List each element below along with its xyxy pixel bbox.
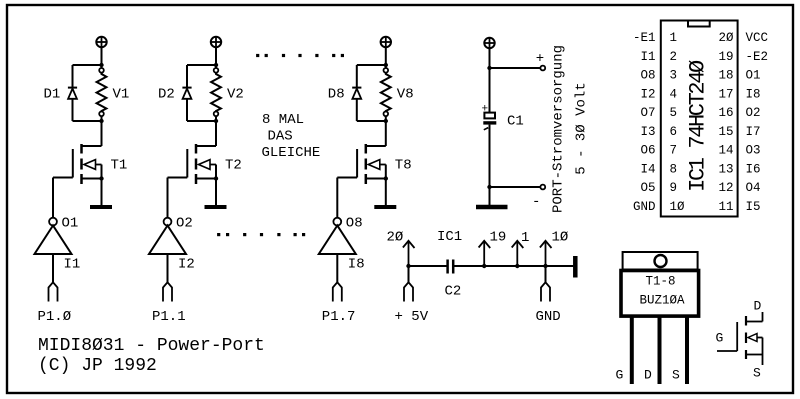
svg-text:P1.7: P1.7: [322, 309, 356, 325]
pin row 8: [640, 162, 760, 176]
svg-text:GND: GND: [633, 200, 656, 214]
svg-text:T1: T1: [111, 158, 128, 174]
pin 10 arrow: [540, 241, 552, 266]
svg-text:GND: GND: [536, 309, 561, 325]
node circle: resistor top pin: [384, 68, 389, 73]
svg-text:9: 9: [670, 181, 678, 195]
node circle: resistor bottom pin: [384, 112, 389, 117]
wire: +5V branch: [408, 266, 410, 283]
connector pin P1.7: [333, 282, 342, 301]
svg-text:14: 14: [718, 144, 733, 158]
svg-text:D8: D8: [328, 87, 345, 103]
diode D8: [352, 65, 361, 121]
pin row 6: [640, 125, 760, 139]
svg-text:8 MAL: 8 MAL: [262, 112, 304, 128]
svg-text:1Ø: 1Ø: [670, 200, 686, 214]
svg-text:O2: O2: [176, 216, 193, 232]
inverter O1/I1: [35, 218, 72, 254]
connector pin +5V: [404, 282, 413, 301]
wire: bottom branch from diode: [73, 120, 102, 122]
wire: supply down to top branch node: [215, 47, 217, 68]
svg-text:6: 6: [670, 125, 678, 139]
svg-text:O8: O8: [346, 216, 363, 232]
svg-text:(C) JP 1992: (C) JP 1992: [38, 356, 157, 376]
power supply symbol (circle-plus) stage T1: [96, 37, 106, 47]
wire: gate to inverter output: [53, 177, 73, 179]
svg-text:I6: I6: [746, 162, 761, 176]
svg-text:2: 2: [670, 50, 678, 64]
node: top junction: [99, 63, 103, 67]
ground at C1: [476, 205, 508, 210]
node circle: resistor bottom pin: [99, 112, 104, 117]
pin 19 arrow: [479, 241, 491, 266]
terminator bar: [573, 256, 578, 278]
pin row 4: [640, 87, 760, 101]
svg-text:7: 7: [670, 144, 678, 158]
IC notch: [688, 21, 710, 27]
svg-text:MIDI8Ø31 - Power-Port: MIDI8Ø31 - Power-Port: [38, 336, 265, 356]
svg-text:17: 17: [718, 87, 733, 101]
svg-text:16: 16: [718, 106, 733, 120]
svg-text:P1.1: P1.1: [152, 309, 186, 325]
svg-text:T1-8: T1-8: [646, 275, 676, 289]
svg-text:12: 12: [718, 181, 733, 195]
svg-text:I4: I4: [640, 162, 655, 176]
svg-text:19: 19: [718, 50, 733, 64]
svg-text:I3: I3: [640, 125, 655, 139]
svg-text:5: 5: [670, 106, 678, 120]
wire: IC1 supply rail right segment: [454, 265, 574, 267]
node: top junction: [214, 63, 218, 67]
resistor V8: [381, 73, 391, 112]
svg-text:D1: D1: [44, 87, 61, 103]
svg-text:19: 19: [490, 230, 507, 246]
power supply symbol (circle-plus) stage T2: [211, 37, 221, 47]
ellipsis dots top row: [256, 54, 344, 57]
pin row 2: [640, 50, 768, 64]
inverter O8/I8: [319, 218, 356, 254]
svg-text:O2: O2: [746, 106, 761, 120]
note text "8 MAL DAS GLEICHE": [262, 112, 321, 161]
pin row 1: [633, 31, 768, 45]
svg-text:1: 1: [521, 230, 529, 246]
svg-text:15: 15: [718, 125, 733, 139]
resistor V2: [211, 73, 221, 112]
svg-text:2Ø: 2Ø: [387, 230, 404, 246]
svg-text:O4: O4: [746, 181, 761, 195]
node: bottom junction: [384, 119, 388, 123]
package body: [621, 271, 699, 317]
node: plus terminal junction: [487, 66, 491, 70]
svg-text:S: S: [672, 368, 680, 383]
pin row 7: [640, 144, 760, 158]
node: bottom junction: [99, 119, 103, 123]
wire: supply down to top branch node: [385, 47, 387, 68]
svg-text:+ 5V: + 5V: [395, 309, 429, 325]
diode D2: [182, 65, 191, 121]
wire: bottom branch from diode: [187, 120, 216, 122]
svg-text:I5: I5: [746, 200, 761, 214]
wire: gate to inverter output: [168, 177, 188, 179]
svg-text:O5: O5: [640, 181, 655, 195]
wire: inverter input down: [167, 254, 169, 282]
wire: supply down to top branch node: [101, 47, 103, 68]
svg-text:I1: I1: [640, 50, 655, 64]
svg-text:+: +: [536, 51, 544, 67]
pin row 3: [640, 69, 760, 83]
ellipsis dots bottom row: [217, 233, 305, 236]
wire: IC1 supply rail left segment: [409, 265, 448, 267]
wire: top branch to diode: [73, 64, 102, 66]
svg-text:VCC: VCC: [746, 31, 769, 45]
package leg D: [658, 317, 662, 384]
pin 20 arrow: [403, 241, 415, 266]
svg-text:S: S: [753, 366, 761, 381]
power supply symbol (circle-plus) at C1: [484, 38, 494, 48]
capacitor C1 (polarized): [483, 113, 496, 187]
capacitor C2: [448, 260, 454, 274]
wire: gate to inverter output: [337, 177, 357, 179]
diode D1: [68, 65, 77, 121]
svg-text:O1: O1: [62, 216, 79, 232]
svg-text:T8: T8: [395, 158, 412, 174]
svg-text:V2: V2: [227, 87, 244, 103]
mounting hole: [655, 255, 667, 267]
transistor T1 (n-MOSFET): [73, 116, 104, 205]
svg-text:PORT-Stromversorgung: PORT-Stromversorgung: [551, 45, 567, 213]
svg-text:I8: I8: [746, 87, 761, 101]
wire: GND branch: [545, 266, 547, 283]
node: bottom junction: [214, 119, 218, 123]
resistor V1: [97, 73, 107, 112]
ground: [205, 205, 227, 209]
svg-text:I7: I7: [746, 125, 761, 139]
svg-text:O7: O7: [640, 106, 655, 120]
svg-text:I1: I1: [64, 257, 81, 273]
svg-text:G: G: [716, 331, 724, 346]
label - at C1: [484, 128, 488, 130]
svg-text:T2: T2: [225, 158, 242, 174]
svg-text:8: 8: [670, 162, 678, 176]
wire: supply down to C1: [489, 48, 491, 112]
svg-text:+: +: [482, 104, 489, 116]
op-amp/IC U1: IC1 74HCT240 pinout box: [661, 21, 738, 217]
svg-text:O1: O1: [746, 69, 761, 83]
connector pin GND: [541, 282, 550, 301]
transistor package T1-8 BUZ10A (TO-220) tab: [623, 252, 698, 270]
svg-text:11: 11: [718, 200, 733, 214]
inverter O2/I2: [149, 218, 186, 254]
svg-text:I2: I2: [178, 257, 195, 273]
svg-text:13: 13: [718, 162, 733, 176]
svg-text:C2: C2: [445, 284, 462, 300]
svg-text:4: 4: [670, 87, 678, 101]
svg-text:I8: I8: [348, 257, 365, 273]
node circle: resistor top pin: [99, 68, 104, 73]
wire: top branch to diode: [357, 64, 386, 66]
wire: to plus terminal: [490, 67, 541, 69]
node circle: resistor bottom pin: [214, 112, 219, 117]
package leg S: [685, 317, 689, 384]
wire: bottom branch from diode: [357, 120, 386, 122]
package leg G: [630, 317, 634, 384]
power supply symbol (circle-plus) stage T8: [381, 37, 391, 47]
svg-text:I2: I2: [640, 87, 655, 101]
pin row 5: [640, 106, 760, 120]
svg-text:1: 1: [670, 31, 678, 45]
svg-text:3: 3: [670, 69, 678, 83]
wire: inverter input down: [336, 254, 338, 282]
svg-text:O3: O3: [746, 144, 761, 158]
svg-text:2Ø: 2Ø: [718, 31, 734, 45]
svg-text:O8: O8: [640, 69, 655, 83]
node: top junction: [384, 63, 388, 67]
svg-text:D2: D2: [158, 87, 175, 103]
svg-text:D: D: [754, 299, 762, 314]
svg-text:IC1 74HCT24Ø: IC1 74HCT24Ø: [686, 60, 711, 192]
node: minus terminal junction: [487, 185, 491, 189]
svg-text:-E2: -E2: [746, 50, 769, 64]
svg-text:P1.Ø: P1.Ø: [38, 309, 72, 325]
svg-text:DAS: DAS: [268, 129, 293, 145]
svg-text:5 - 3Ø Volt: 5 - 3Ø Volt: [574, 82, 590, 174]
wire down to ground: [489, 187, 491, 205]
pin 1 arrow: [512, 241, 524, 266]
svg-text:V8: V8: [397, 87, 414, 103]
ground: [374, 205, 396, 209]
connector pin P1.1: [163, 282, 172, 301]
svg-text:D: D: [644, 368, 652, 383]
svg-text:O6: O6: [640, 144, 655, 158]
terminal +: [540, 66, 545, 71]
transistor T8 (n-MOSFET): [357, 116, 388, 205]
connector pin P1.&#216;: [49, 282, 58, 301]
svg-text:V1: V1: [113, 87, 130, 103]
terminal -: [540, 185, 545, 190]
wire: inverter input down: [52, 254, 54, 282]
svg-text:18: 18: [718, 69, 733, 83]
MOSFET pinout symbol: [717, 312, 763, 365]
node circle: resistor top pin: [214, 68, 219, 73]
transistor T2 (n-MOSFET): [187, 116, 218, 205]
svg-text:GLEICHE: GLEICHE: [262, 145, 321, 161]
svg-text:-E1: -E1: [633, 31, 656, 45]
svg-text:C1: C1: [507, 114, 524, 130]
svg-text:-: -: [532, 194, 540, 210]
ground: [90, 205, 112, 209]
svg-text:G: G: [616, 368, 624, 383]
pin row 9: [640, 181, 760, 195]
pin row 10: [633, 200, 761, 214]
svg-text:IC1: IC1: [437, 229, 462, 245]
svg-text:BUZ1ØA: BUZ1ØA: [640, 294, 686, 308]
wire: to minus terminal: [490, 186, 541, 188]
svg-text:1Ø: 1Ø: [552, 230, 569, 246]
wire: top branch to diode: [187, 64, 216, 66]
